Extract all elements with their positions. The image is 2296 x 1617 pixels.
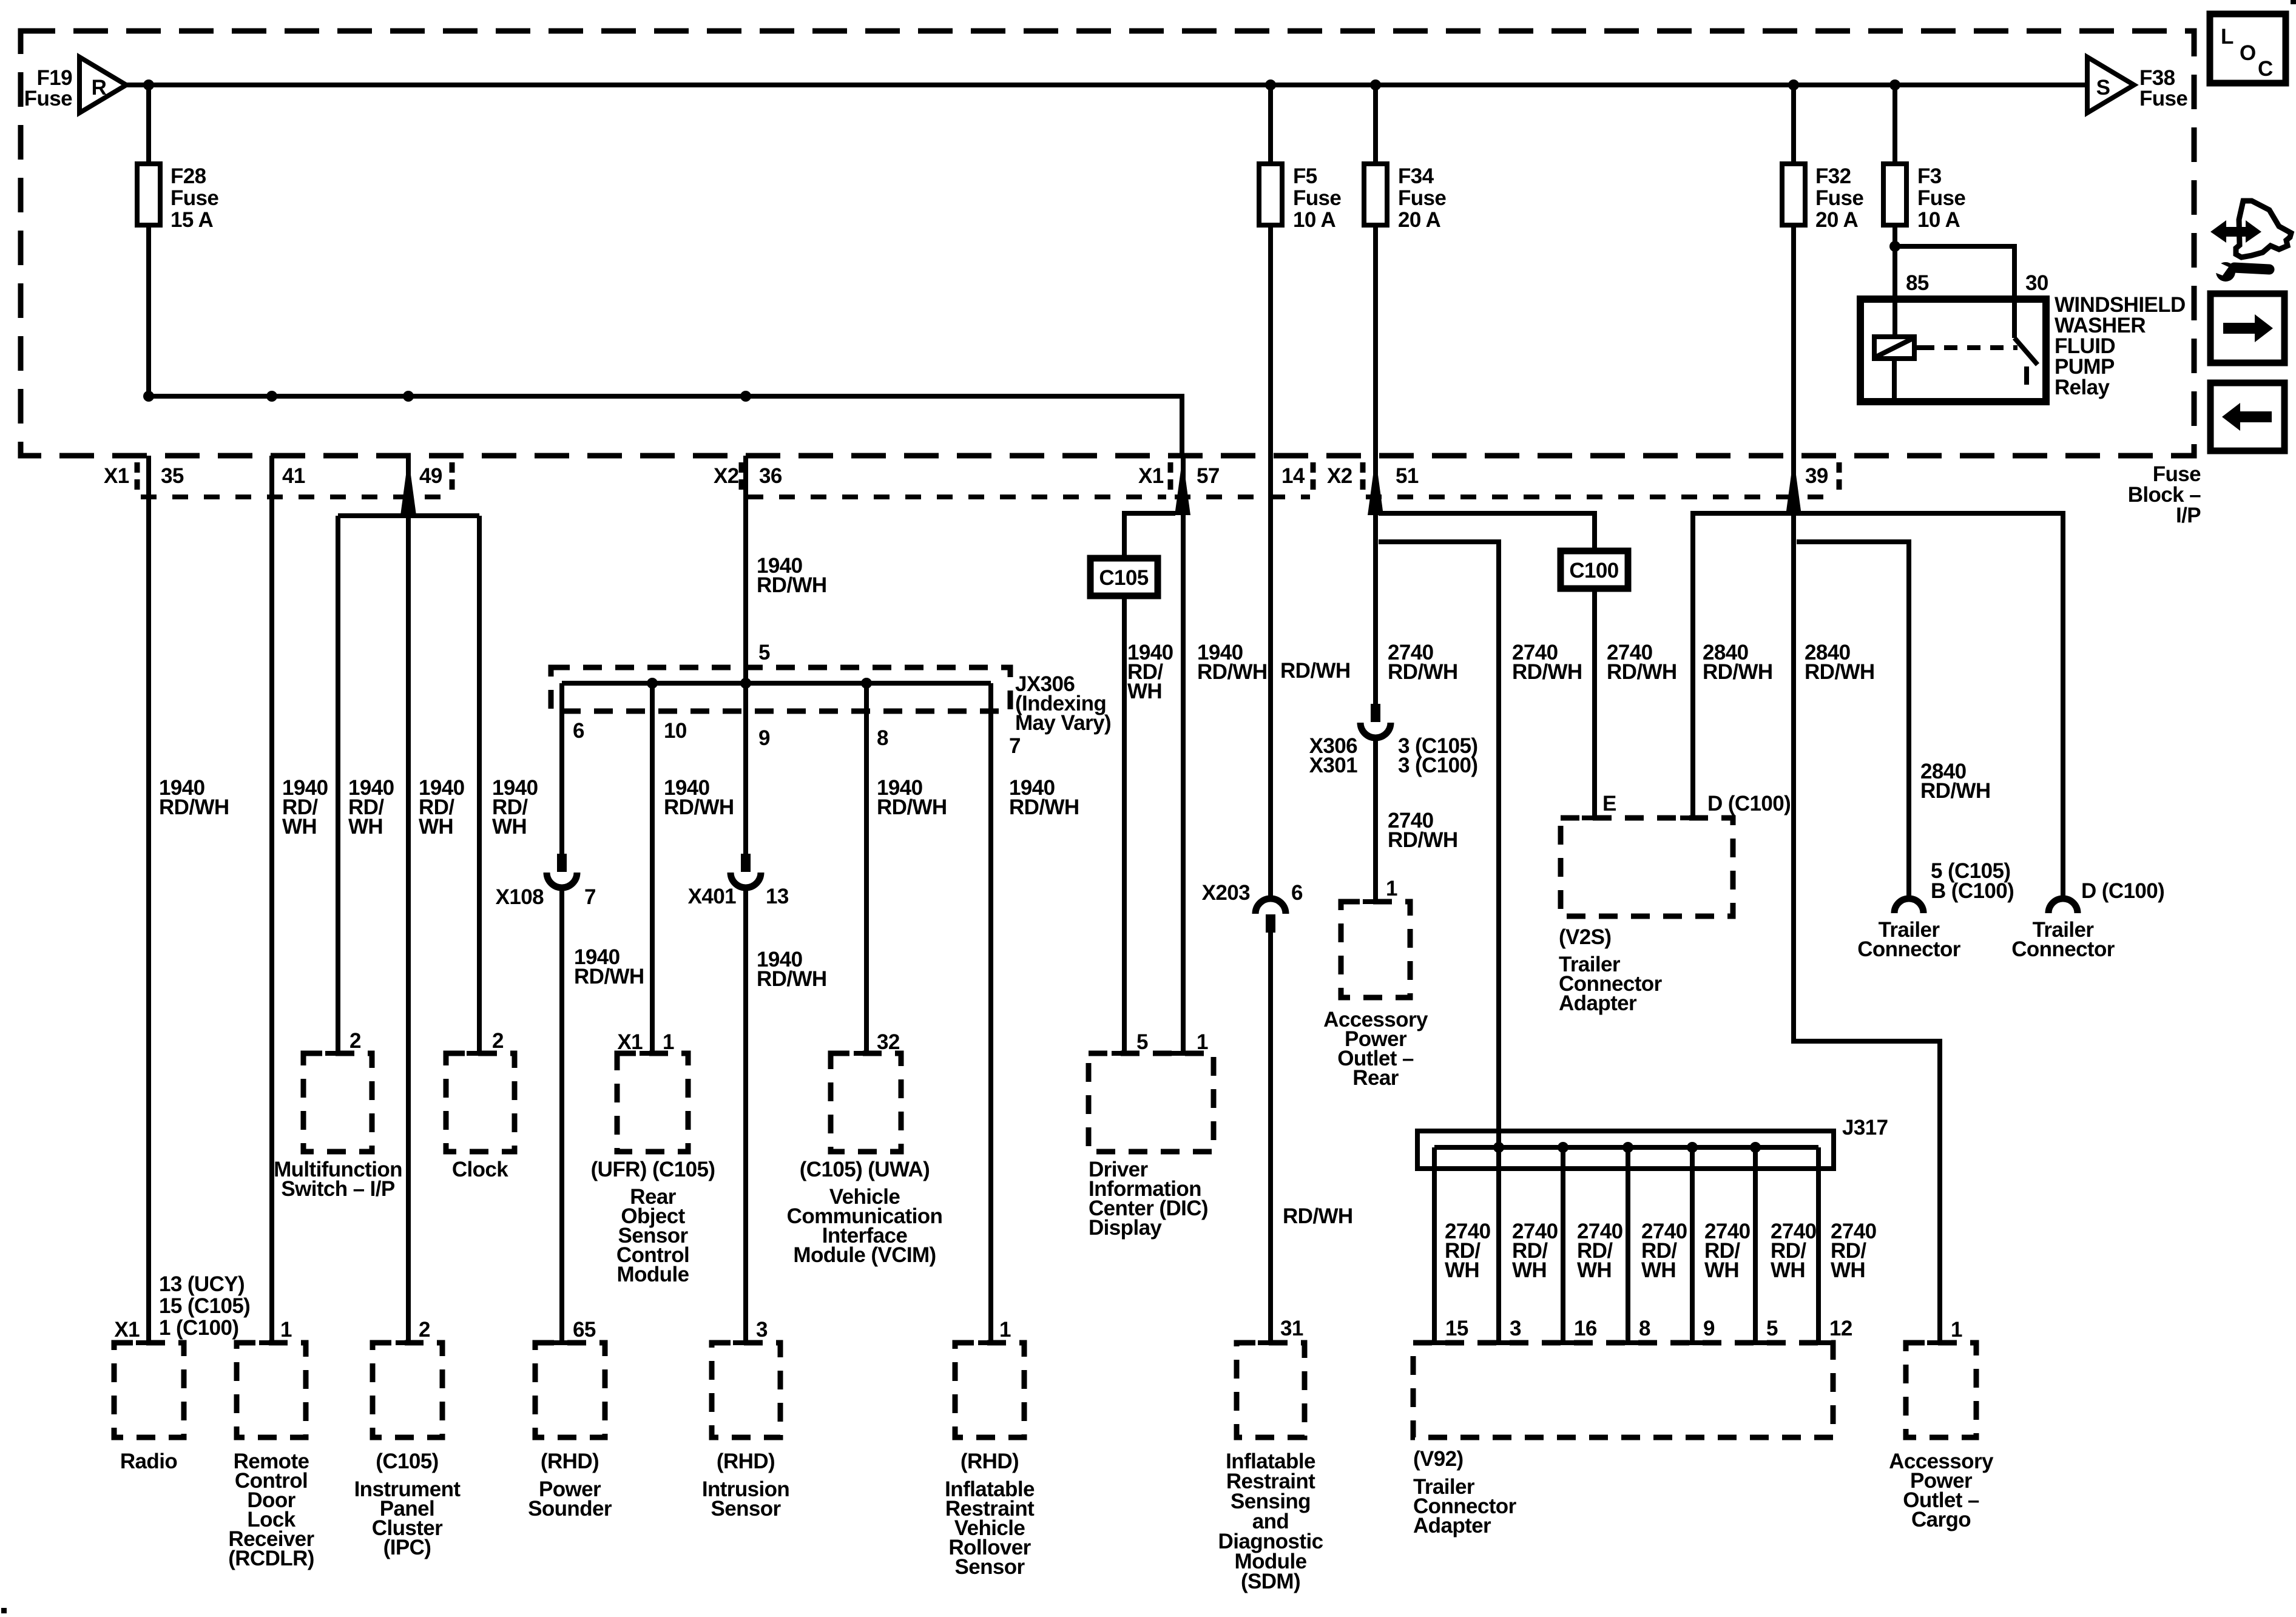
svg-text:X1: X1: [114, 1318, 140, 1342]
arrow terminal 39: [1786, 457, 1801, 515]
destination arrow S (F38 Fuse): [2087, 57, 2134, 113]
svg-text:X401: X401: [688, 885, 736, 908]
JX306 bus: [562, 681, 991, 686]
svg-text:X301: X301: [1309, 754, 1357, 777]
svg-text:14: 14: [1281, 464, 1305, 488]
svg-text:49: 49: [419, 464, 442, 488]
svg-text:E: E: [1602, 792, 1616, 815]
relay switch: [2012, 299, 2017, 338]
arrow terminal 57: [1175, 457, 1190, 515]
terminal strip dotted lines: [141, 495, 450, 499]
svg-text:X108: X108: [496, 885, 544, 909]
svg-text:WH: WH: [419, 815, 453, 839]
svg-text:Rear: Rear: [1352, 1066, 1399, 1090]
wire 39 cross branch: [1693, 513, 2063, 899]
svg-text:7: 7: [584, 885, 596, 909]
svg-text:L: L: [2221, 25, 2234, 49]
wire jx306-10 to ROS: [650, 683, 655, 1053]
svg-text:May Vary): May Vary): [1015, 711, 1111, 735]
svg-text:8: 8: [877, 726, 888, 750]
svg-text:85: 85: [1906, 271, 1929, 295]
svg-text:RD/WH: RD/WH: [1388, 828, 1458, 852]
svg-text:(SDM): (SDM): [1241, 1570, 1300, 1593]
svg-text:(RCDLR): (RCDLR): [228, 1547, 314, 1570]
svg-text:36: 36: [759, 464, 782, 488]
svg-text:Relay: Relay: [2055, 376, 2110, 399]
vcim box: [831, 1053, 901, 1152]
fuse F28 15A: [146, 85, 151, 164]
wire 36 to JX306: [743, 456, 748, 683]
node JX306 junctions: [647, 678, 658, 689]
svg-text:(RHD): (RHD): [541, 1450, 599, 1473]
svg-text:Sensor: Sensor: [954, 1555, 1025, 1579]
svg-text:C105: C105: [1099, 566, 1148, 590]
svg-text:F34: F34: [1398, 164, 1434, 188]
rcdlr box: [237, 1343, 306, 1437]
svg-text:65: 65: [573, 1318, 596, 1342]
svg-text:X2: X2: [714, 464, 739, 488]
svg-text:I/P: I/P: [2176, 504, 2201, 527]
trailer connector 2: [2048, 899, 2078, 913]
relay box WINDSHIELD WASHER FLUID PUMP: [1860, 299, 2046, 402]
svg-text:C: C: [2258, 57, 2273, 81]
icon hand with wrench: [2236, 201, 2291, 257]
svg-text:F32: F32: [1815, 164, 1851, 188]
svg-text:Connector: Connector: [2011, 937, 2115, 961]
V92 trailer connector adapter box: [1413, 1343, 1833, 1437]
svg-text:WH: WH: [1127, 680, 1162, 703]
wire F32 down: [1791, 225, 1796, 456]
svg-text:57: 57: [1197, 464, 1220, 488]
ipc box: [373, 1343, 442, 1437]
fuse F3 10A: [1893, 85, 1897, 164]
clock box: [446, 1053, 515, 1152]
svg-text:2: 2: [349, 1029, 361, 1053]
page mark top right: [2291, 0, 2296, 4]
wire J317 out 8: [1626, 1147, 1630, 1343]
svg-text:Adapter: Adapter: [1413, 1514, 1491, 1538]
rollover sensor box: [955, 1343, 1024, 1437]
wire C100 to V2S pin E: [1592, 589, 1597, 818]
wire X306 to APO rear: [1373, 738, 1378, 902]
svg-text:S: S: [2096, 76, 2110, 100]
svg-text:12: 12: [1829, 1317, 1852, 1340]
wire C105 to DIC pin5: [1122, 596, 1127, 1053]
svg-text:8: 8: [1639, 1317, 1650, 1340]
wire J317 out 5: [1753, 1147, 1758, 1343]
wire 57 main to DIC pin1: [1181, 456, 1186, 1053]
arrow terminal 49: [400, 457, 416, 515]
svg-text:13: 13: [766, 885, 789, 908]
wire F34 down: [1373, 225, 1378, 456]
radio box: [114, 1343, 184, 1437]
svg-text:RD/WH: RD/WH: [1009, 795, 1079, 819]
icon arrow right box: [2210, 294, 2284, 363]
J317 splice pack box: [1417, 1131, 1834, 1169]
wire 51 branch to C100: [1379, 513, 1595, 551]
svg-text:X2: X2: [1327, 464, 1352, 488]
svg-text:(IPC): (IPC): [383, 1536, 431, 1559]
connector X203: [1255, 899, 1286, 914]
connector label box C100: [1561, 551, 1628, 589]
svg-text:16: 16: [1574, 1317, 1597, 1340]
svg-text:3 (C100): 3 (C100): [1398, 754, 1477, 777]
svg-text:RD/WH: RD/WH: [757, 573, 827, 597]
wire top feed bus: [126, 83, 2087, 87]
svg-text:6: 6: [573, 719, 584, 743]
wire to multifunction switch: [336, 516, 340, 1053]
svg-text:Fuse: Fuse: [24, 87, 72, 110]
multifunction switch box: [303, 1053, 372, 1152]
wire relay pin30 feed: [1895, 246, 2014, 299]
wire 51 branch to J317: [1379, 542, 1499, 1147]
svg-text:WH: WH: [1512, 1258, 1547, 1282]
svg-text:WH: WH: [348, 815, 383, 839]
connector X108: [557, 854, 567, 872]
svg-text:1: 1: [280, 1318, 292, 1342]
svg-text:(UFR) (C105): (UFR) (C105): [591, 1158, 715, 1181]
node top bus junctions: [143, 79, 154, 90]
svg-text:Clock: Clock: [452, 1158, 508, 1181]
connector label box C105: [1090, 558, 1158, 596]
svg-text:RD/WH: RD/WH: [1283, 1204, 1353, 1228]
svg-text:Display: Display: [1089, 1216, 1162, 1240]
svg-text:6: 6: [1291, 881, 1303, 905]
wire jx306-6 to X108: [559, 683, 564, 854]
svg-text:13 (UCY): 13 (UCY): [159, 1272, 245, 1296]
svg-text:1: 1: [999, 1318, 1011, 1342]
svg-text:5: 5: [1136, 1030, 1148, 1054]
relay coil: [1874, 337, 1914, 359]
DIC display box: [1089, 1053, 1214, 1152]
wire lower distribution bus: [149, 396, 1182, 456]
svg-text:Fuse: Fuse: [1293, 186, 1341, 210]
svg-text:WH: WH: [1577, 1258, 1612, 1282]
wire J317 out 15: [1432, 1147, 1437, 1343]
connector X306 X301: [1371, 704, 1380, 722]
svg-text:(C105): (C105): [376, 1450, 438, 1473]
svg-text:10: 10: [664, 719, 687, 743]
wire J317 out 12: [1816, 1147, 1821, 1343]
svg-text:2: 2: [419, 1318, 430, 1342]
svg-text:3: 3: [1510, 1317, 1521, 1340]
svg-text:RD/WH: RD/WH: [877, 795, 947, 819]
rear object sensor box: [617, 1053, 688, 1152]
svg-text:O: O: [2240, 41, 2256, 65]
svg-text:F28: F28: [171, 164, 206, 188]
node F3 branch: [1889, 241, 1900, 252]
svg-text:X1: X1: [617, 1030, 643, 1054]
svg-text:(RHD): (RHD): [717, 1450, 775, 1473]
svg-text:RD/WH: RD/WH: [1280, 659, 1351, 683]
svg-text:15 A: 15 A: [171, 208, 214, 232]
wire X203 to SDM: [1268, 933, 1273, 1343]
svg-text:Switch – I/P: Switch – I/P: [281, 1177, 395, 1201]
svg-text:41: 41: [282, 464, 305, 488]
svg-text:30: 30: [2025, 271, 2048, 295]
icon arrow left box: [2210, 383, 2284, 451]
svg-text:Module (VCIM): Module (VCIM): [793, 1243, 936, 1267]
LOC reference box: [2210, 14, 2286, 83]
wire X401 to intrusion sensor: [743, 888, 748, 1343]
relay coil-switch link dashed: [1921, 345, 2017, 350]
svg-text:D (C100): D (C100): [2081, 879, 2164, 903]
svg-text:(C105) (UWA): (C105) (UWA): [800, 1158, 930, 1181]
svg-text:5: 5: [1766, 1317, 1778, 1340]
svg-text:RD/WH: RD/WH: [1607, 660, 1677, 684]
svg-text:Fuse: Fuse: [2139, 87, 2187, 110]
svg-text:9: 9: [1703, 1317, 1715, 1340]
svg-text:20 A: 20 A: [1398, 208, 1441, 232]
svg-text:Fuse: Fuse: [1815, 186, 1863, 210]
J317 bus: [1434, 1145, 1818, 1150]
svg-text:5: 5: [758, 641, 770, 664]
wire 41 to RCDLR: [269, 456, 274, 1343]
wire J317 out 3: [1496, 1147, 1501, 1343]
wire F3 to relay: [1893, 225, 1897, 337]
svg-text:20 A: 20 A: [1815, 208, 1859, 232]
svg-text:RD/WH: RD/WH: [757, 967, 827, 991]
wire 39 branch to trailer conn 1: [1797, 542, 1909, 899]
V2S trailer connector adapter box: [1561, 818, 1733, 916]
svg-text:51: 51: [1396, 464, 1419, 488]
svg-text:Sensor: Sensor: [711, 1497, 781, 1521]
JX306 dashed box: [551, 667, 1010, 711]
source arrow R (F19 Fuse): [79, 57, 126, 113]
svg-text:Connector: Connector: [1857, 937, 1961, 961]
svg-text:F5: F5: [1293, 164, 1317, 188]
wire jx306-7 to rollover: [988, 683, 993, 1343]
svg-text:WH: WH: [1445, 1258, 1479, 1282]
svg-text:B (C100): B (C100): [1931, 879, 2014, 903]
svg-text:2: 2: [492, 1029, 504, 1053]
svg-text:1: 1: [1386, 877, 1397, 900]
svg-text:F3: F3: [1917, 164, 1942, 188]
svg-text:7: 7: [1009, 734, 1021, 758]
wire to clock: [477, 516, 482, 1053]
svg-text:15: 15: [1445, 1317, 1468, 1340]
wire 51 main: [1373, 456, 1378, 704]
svg-text:Module: Module: [617, 1263, 689, 1286]
svg-text:X1: X1: [1138, 464, 1164, 488]
svg-text:Adapter: Adapter: [1559, 991, 1637, 1015]
svg-text:RD/WH: RD/WH: [1388, 660, 1458, 684]
svg-text:WH: WH: [1704, 1258, 1739, 1282]
svg-text:1: 1: [1951, 1318, 1962, 1342]
svg-text:RD/WH: RD/WH: [574, 965, 644, 988]
power sounder box: [535, 1343, 605, 1437]
svg-text:15 (C105): 15 (C105): [159, 1294, 250, 1318]
svg-text:RD/WH: RD/WH: [1703, 660, 1773, 684]
svg-text:9: 9: [758, 726, 770, 750]
node lower bus junctions: [143, 391, 154, 402]
svg-text:31: 31: [1280, 1317, 1303, 1340]
svg-text:39: 39: [1805, 464, 1828, 488]
svg-text:Fuse: Fuse: [171, 186, 218, 210]
svg-text:1: 1: [663, 1030, 674, 1054]
svg-text:Cargo: Cargo: [1911, 1508, 1971, 1531]
wire 57 branch to C105: [1124, 513, 1175, 558]
svg-text:32: 32: [877, 1030, 900, 1054]
wire to IPC: [406, 516, 411, 1343]
wire 39 main: [1794, 456, 1940, 1343]
svg-text:Fuse: Fuse: [1917, 186, 1965, 210]
svg-text:C100: C100: [1569, 559, 1618, 582]
svg-text:WH: WH: [282, 815, 317, 839]
svg-text:3: 3: [756, 1318, 768, 1342]
wire J317 out 16: [1561, 1147, 1565, 1343]
page mark: [1, 1608, 7, 1613]
svg-text:RD/WH: RD/WH: [1805, 660, 1875, 684]
svg-text:1 (C100): 1 (C100): [159, 1316, 238, 1340]
svg-text:X203: X203: [1202, 881, 1250, 905]
accessory power outlet cargo box: [1906, 1343, 1976, 1437]
svg-text:1: 1: [1197, 1030, 1208, 1054]
intrusion sensor box: [712, 1343, 780, 1437]
svg-text:10 A: 10 A: [1293, 208, 1336, 232]
terminal strip double-dashes: [135, 462, 140, 490]
wire J317 out 9: [1690, 1147, 1695, 1343]
svg-text:RD/WH: RD/WH: [1512, 660, 1582, 684]
fuse block I/P dashed border: [21, 31, 2194, 456]
svg-text:Fuse: Fuse: [1398, 186, 1446, 210]
svg-text:J317: J317: [1842, 1116, 1888, 1139]
svg-text:RD/WH: RD/WH: [1920, 779, 1991, 803]
svg-text:Sounder: Sounder: [528, 1497, 612, 1521]
fuse F32 20A: [1791, 85, 1796, 164]
svg-text:R: R: [92, 76, 107, 100]
fuse F5 10A: [1268, 85, 1273, 164]
svg-text:(V2S): (V2S): [1559, 925, 1611, 949]
wire jx306-9 to X401: [743, 683, 748, 854]
svg-text:X1: X1: [104, 464, 129, 488]
arrow terminal 51: [1368, 457, 1383, 515]
svg-text:RD/WH: RD/WH: [664, 795, 734, 819]
svg-text:35: 35: [161, 464, 184, 488]
fuse F34 20A: [1373, 85, 1378, 164]
svg-text:D (C100): D (C100): [1707, 792, 1791, 815]
svg-text:10 A: 10 A: [1917, 208, 1960, 232]
connector X401: [741, 854, 751, 872]
node J317 junctions: [1493, 1142, 1504, 1153]
svg-text:WH: WH: [1831, 1258, 1865, 1282]
svg-text:WH: WH: [1771, 1258, 1805, 1282]
trailer connector 1: [1894, 899, 1923, 913]
svg-text:WH: WH: [1641, 1258, 1676, 1282]
svg-text:(RHD): (RHD): [961, 1450, 1019, 1473]
svg-text:Radio: Radio: [120, 1450, 177, 1473]
wire X108 to power sounder: [559, 888, 564, 1343]
sdm box: [1237, 1343, 1305, 1437]
accessory power outlet rear box: [1341, 902, 1410, 998]
svg-text:WH: WH: [492, 815, 527, 839]
svg-text:(V92): (V92): [1413, 1447, 1464, 1471]
wire 35 to Radio: [146, 456, 151, 1343]
svg-text:RD/WH: RD/WH: [159, 795, 229, 819]
wire 49 split tent: [338, 513, 479, 518]
wire F28 to lower bus: [146, 225, 151, 396]
svg-text:RD/WH: RD/WH: [1197, 660, 1268, 684]
wire F5 down: [1268, 225, 1273, 900]
wire jx306-8 to VCIM: [864, 683, 869, 1053]
